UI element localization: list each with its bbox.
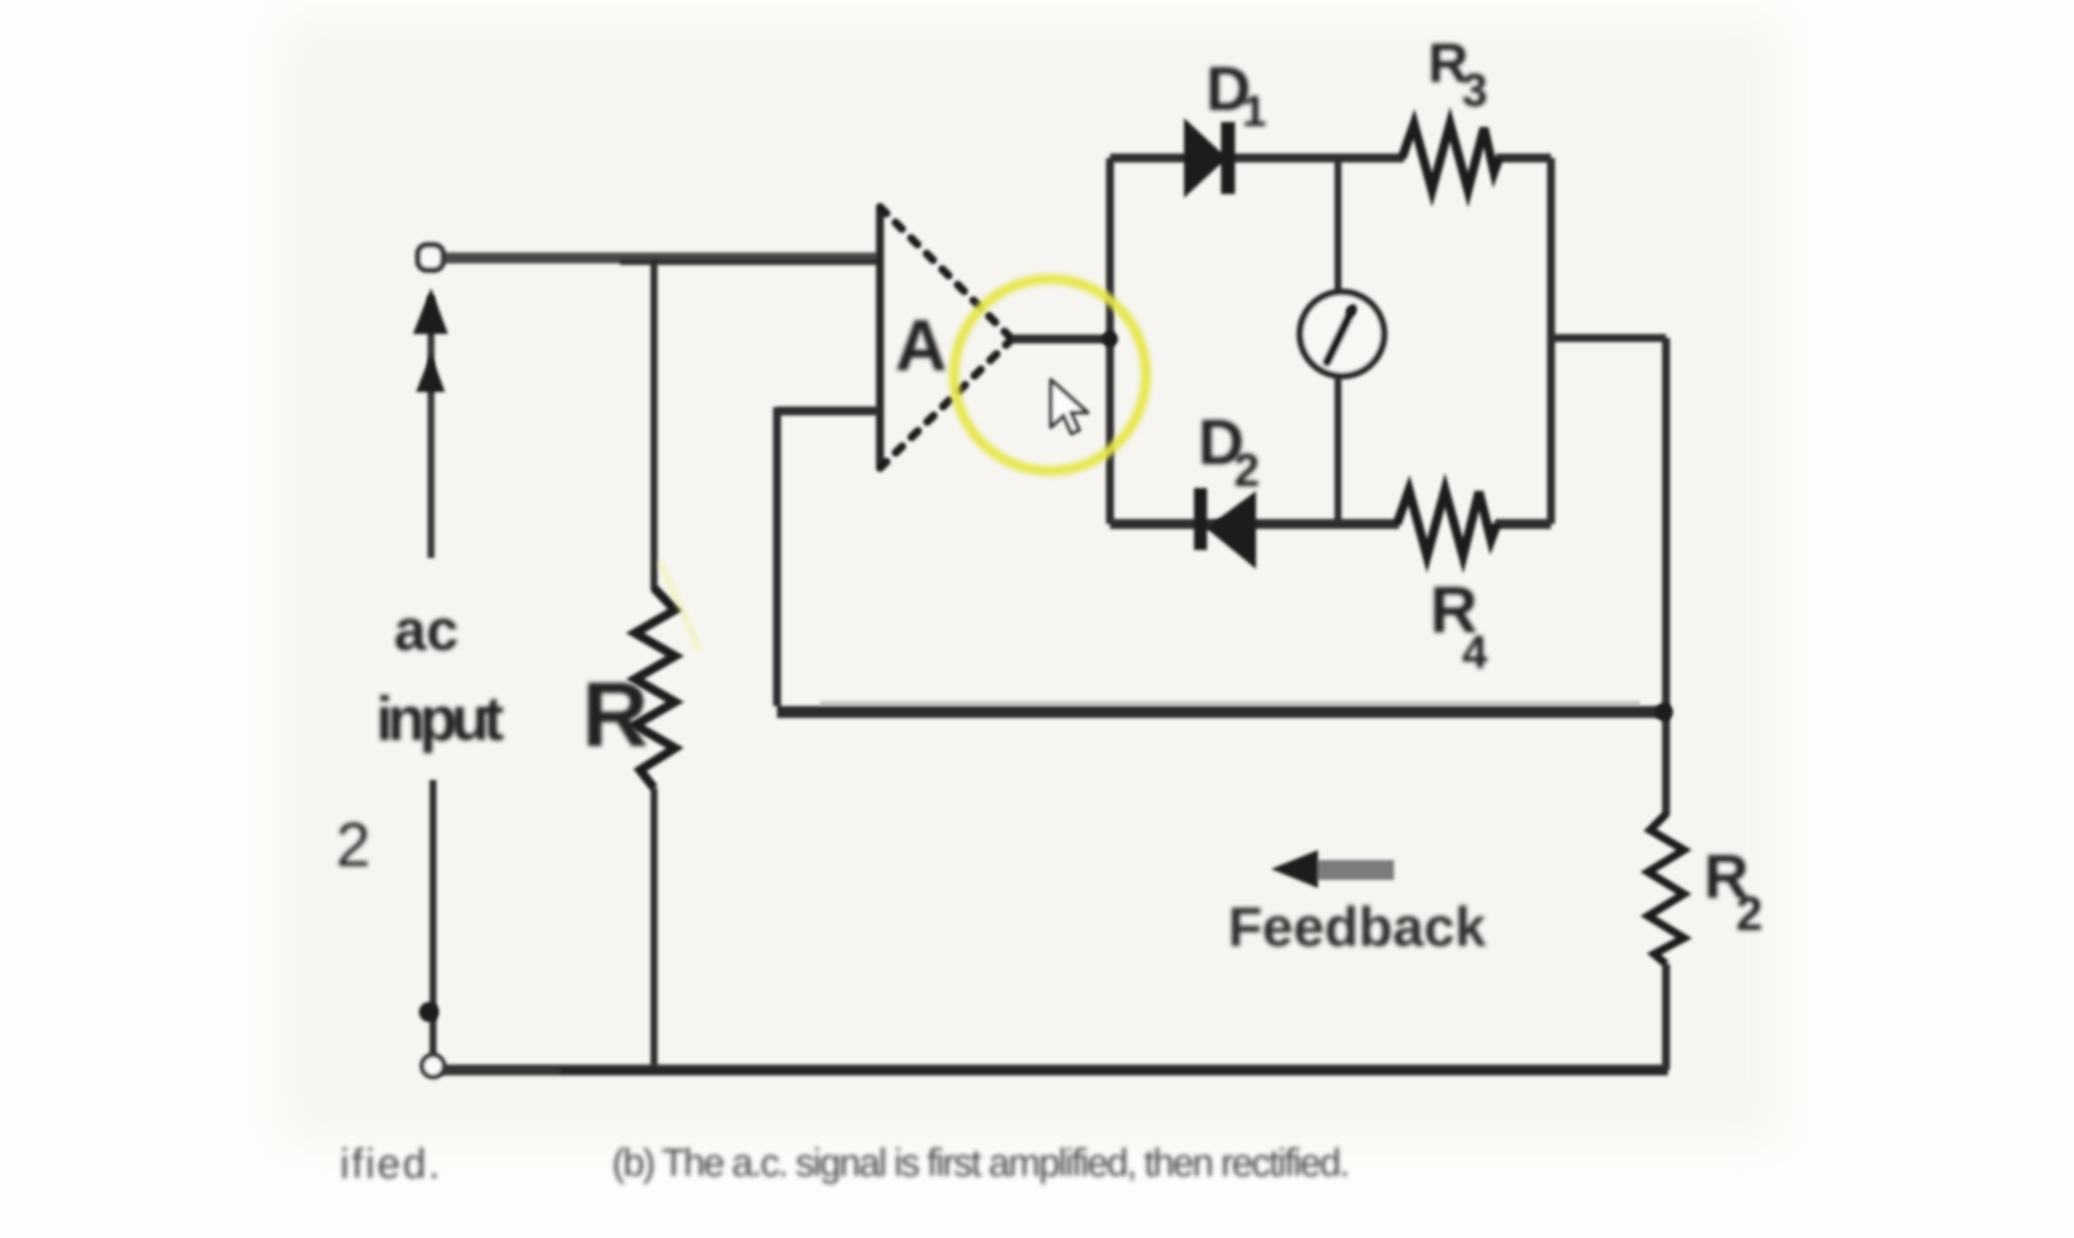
svg-text:(b) The a.c. signal is first a: (b) The a.c. signal is first amplified, … xyxy=(612,1142,1350,1185)
svg-text:input: input xyxy=(376,685,504,754)
svg-text:R: R xyxy=(582,664,648,766)
svg-text:Feedback: Feedback xyxy=(1228,895,1487,958)
svg-text:ac: ac xyxy=(394,598,459,663)
svg-text:2: 2 xyxy=(1234,444,1260,496)
svg-text:4: 4 xyxy=(1462,626,1488,678)
svg-text:1: 1 xyxy=(1242,87,1266,136)
svg-text:A: A xyxy=(895,306,947,386)
svg-text:2: 2 xyxy=(336,811,370,880)
svg-text:3: 3 xyxy=(1462,64,1488,116)
svg-text:2: 2 xyxy=(1736,888,1763,941)
svg-text:ified.: ified. xyxy=(340,1140,440,1187)
